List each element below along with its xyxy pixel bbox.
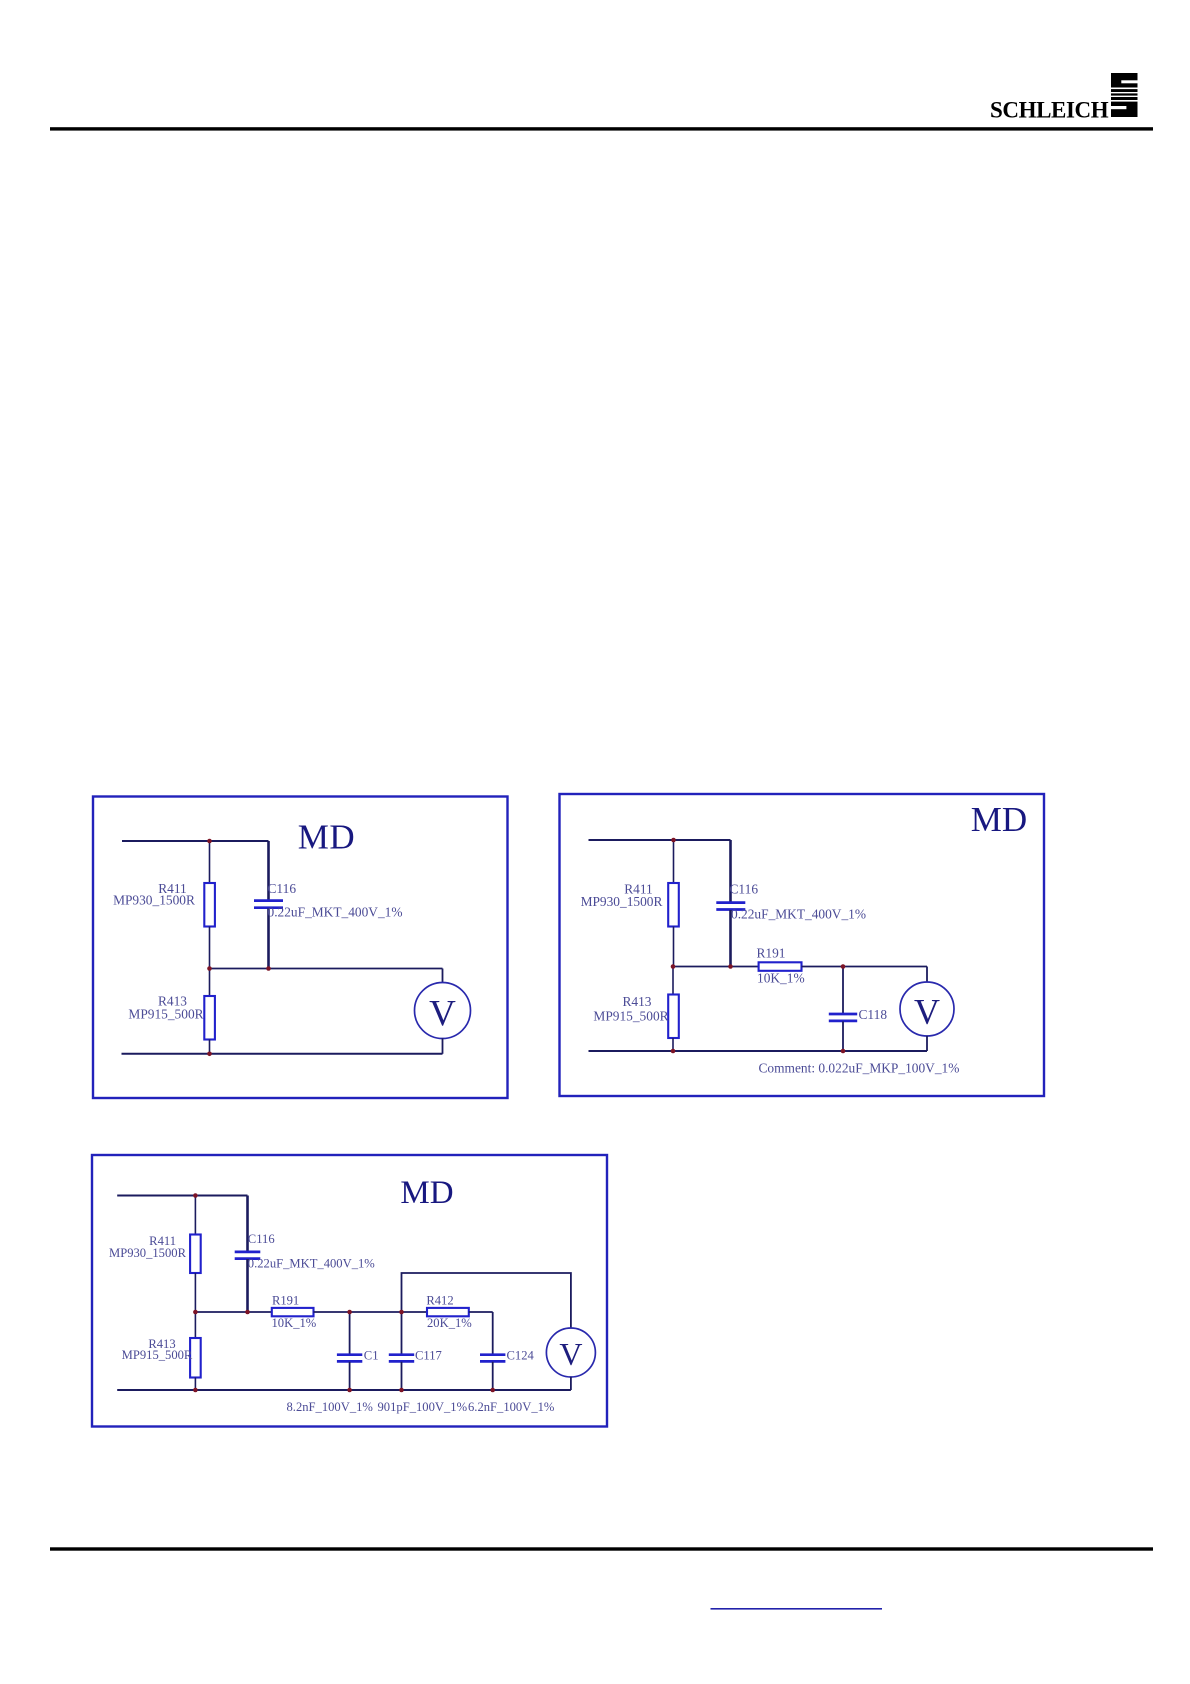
capacitor C118 (829, 1014, 857, 1021)
resistor R411 (668, 883, 679, 927)
svg-text:C117: C117 (415, 1349, 442, 1363)
svg-text:0.22uF_MKT_400V_1%: 0.22uF_MKT_400V_1% (268, 905, 403, 920)
wire R411 lower lead (194, 1273, 196, 1312)
svg-text:C116: C116 (268, 881, 297, 896)
capacitor C116 (235, 1252, 261, 1259)
svg-text:V: V (429, 994, 456, 1035)
footer link underline (711, 1608, 883, 1610)
node bottom junction left (671, 1049, 676, 1054)
svg-text:10K_1%: 10K_1% (757, 971, 805, 986)
wire R413 lower lead (672, 1038, 674, 1051)
wire voltmeter lower lead (442, 1038, 444, 1054)
resistor R191 (759, 962, 802, 971)
wire mid net right (802, 966, 928, 968)
wire C124 upper lead (492, 1312, 494, 1354)
header rule (50, 127, 1153, 130)
wire R411 upper lead (673, 840, 675, 883)
svg-text:C1: C1 (364, 1349, 379, 1363)
svg-text:R191: R191 (756, 946, 785, 961)
node mid junction C1 (347, 1310, 352, 1315)
node mid junction cap (728, 964, 733, 969)
wire R411 upper lead (194, 1196, 196, 1235)
node top junction (193, 1193, 198, 1198)
node bottom junction C1 (347, 1388, 352, 1393)
wire C116 lower lead (267, 909, 270, 969)
wire bottom net (122, 1053, 443, 1055)
wire R411 upper lead (209, 841, 211, 883)
node bottom junction (207, 1052, 212, 1057)
SCHLEICH S logo mark (1111, 73, 1138, 117)
resistor R411 (204, 883, 215, 927)
svg-text:R412: R412 (426, 1294, 453, 1308)
svg-text:20K_1%: 20K_1% (427, 1316, 472, 1330)
wire R413 lower lead (194, 1378, 196, 1391)
svg-text:MP930_1500R: MP930_1500R (113, 893, 195, 908)
wire C116 upper lead (267, 841, 270, 900)
wire C1 upper lead (349, 1312, 351, 1354)
wire bottom net (117, 1389, 571, 1391)
wire top net (589, 839, 731, 841)
node mid junction C117 (399, 1310, 404, 1315)
wire C124 lower lead (492, 1362, 494, 1390)
wire mid net (210, 968, 443, 970)
svg-text:C118: C118 (859, 1007, 888, 1022)
wire R413 upper lead (209, 969, 211, 997)
wire R413 upper lead (672, 967, 674, 995)
resistor R191 (272, 1308, 314, 1316)
wire C118 lower lead (842, 1021, 844, 1051)
svg-text:901pF_100V_1%: 901pF_100V_1% (378, 1400, 468, 1414)
resistor R413 (190, 1338, 201, 1378)
voltmeter V (900, 982, 954, 1036)
wire voltmeter lower lead (926, 1036, 928, 1051)
wire C1 lower lead (349, 1362, 351, 1390)
wire voltmeter upper lead (442, 969, 444, 983)
svg-text:C116: C116 (248, 1232, 275, 1246)
node mid junction cap (245, 1310, 250, 1315)
frame box 2 (560, 794, 1045, 1096)
wire mid net right (469, 1311, 493, 1313)
node mid junction left (671, 964, 676, 969)
svg-text:R413: R413 (622, 994, 651, 1009)
wire voltmeter upper lead (926, 967, 928, 983)
svg-text:MP930_1500R: MP930_1500R (109, 1246, 187, 1260)
capacitor C124 (480, 1355, 505, 1362)
svg-text:10K_1%: 10K_1% (272, 1316, 317, 1330)
wire mid net left (673, 966, 759, 968)
svg-text:C124: C124 (507, 1349, 535, 1363)
node bottom junction C118 (841, 1049, 846, 1054)
node top junction (207, 839, 212, 844)
wire R413 upper lead (194, 1312, 196, 1338)
wire voltmeter loop (402, 1273, 571, 1328)
svg-text:MD: MD (400, 1175, 453, 1211)
svg-text:SCHLEICH: SCHLEICH (990, 98, 1109, 123)
wire top net (117, 1195, 247, 1197)
resistor R411 (190, 1235, 201, 1274)
svg-text:MD: MD (298, 818, 355, 857)
wire C116 upper lead (729, 840, 732, 902)
frame box 1 (93, 797, 508, 1099)
svg-text:6.2nF_100V_1%: 6.2nF_100V_1% (468, 1400, 555, 1414)
node top junction (671, 838, 676, 843)
capacitor C1 (337, 1355, 362, 1362)
wire R413 lower lead (209, 1040, 211, 1054)
frame box 3 (92, 1155, 607, 1427)
node bottom junction C124 (490, 1388, 495, 1393)
svg-text:V: V (559, 1336, 582, 1372)
resistor R412 (427, 1308, 469, 1316)
wire mid net left (195, 1311, 271, 1313)
wire bottom net (589, 1050, 928, 1052)
svg-text:MP930_1500R: MP930_1500R (581, 894, 663, 909)
node bottom junction left (193, 1388, 198, 1393)
svg-text:MD: MD (971, 800, 1027, 839)
node bottom junction C117 (399, 1388, 404, 1393)
node mid junction left (193, 1310, 198, 1315)
wire C117 upper lead (401, 1312, 403, 1354)
resistor R413 (204, 996, 215, 1040)
svg-text:MP915_500R: MP915_500R (593, 1009, 668, 1024)
wire R411 lower lead (209, 927, 211, 969)
svg-text:C116: C116 (730, 882, 759, 897)
capacitor C117 (389, 1355, 414, 1362)
svg-text:0.22uF_MKT_400V_1%: 0.22uF_MKT_400V_1% (731, 907, 866, 922)
node mid junction left (207, 966, 212, 971)
voltmeter V (415, 983, 471, 1039)
wire C116 lower lead (246, 1259, 249, 1312)
footer rule (50, 1547, 1153, 1550)
wire mid net center (314, 1311, 428, 1313)
node mid junction C118 (841, 964, 846, 969)
svg-text:V: V (914, 992, 940, 1032)
wire R411 lower lead (673, 927, 675, 967)
node mid junction cap (266, 966, 271, 971)
resistor R413 (668, 995, 679, 1039)
svg-text:0.22uF_MKT_400V_1%: 0.22uF_MKT_400V_1% (248, 1257, 375, 1271)
svg-text:8.2nF_100V_1%: 8.2nF_100V_1% (287, 1400, 374, 1414)
svg-text:MP915_500R: MP915_500R (122, 1348, 193, 1362)
wire top net (122, 840, 269, 842)
voltmeter V (546, 1328, 595, 1377)
svg-text:R191: R191 (272, 1294, 299, 1308)
capacitor C116 (254, 901, 283, 908)
wire C118 upper lead (842, 967, 844, 1014)
wire C116 lower lead (729, 910, 732, 967)
capacitor C116 (716, 903, 745, 910)
wire C117 lower lead (401, 1362, 403, 1390)
svg-text:Comment: 0.022uF_MKP_100V_1%: Comment: 0.022uF_MKP_100V_1% (759, 1061, 960, 1076)
wire voltmeter lower lead (570, 1377, 572, 1390)
wire C116 upper lead (246, 1196, 249, 1252)
svg-text:MP915_500R: MP915_500R (128, 1007, 203, 1022)
